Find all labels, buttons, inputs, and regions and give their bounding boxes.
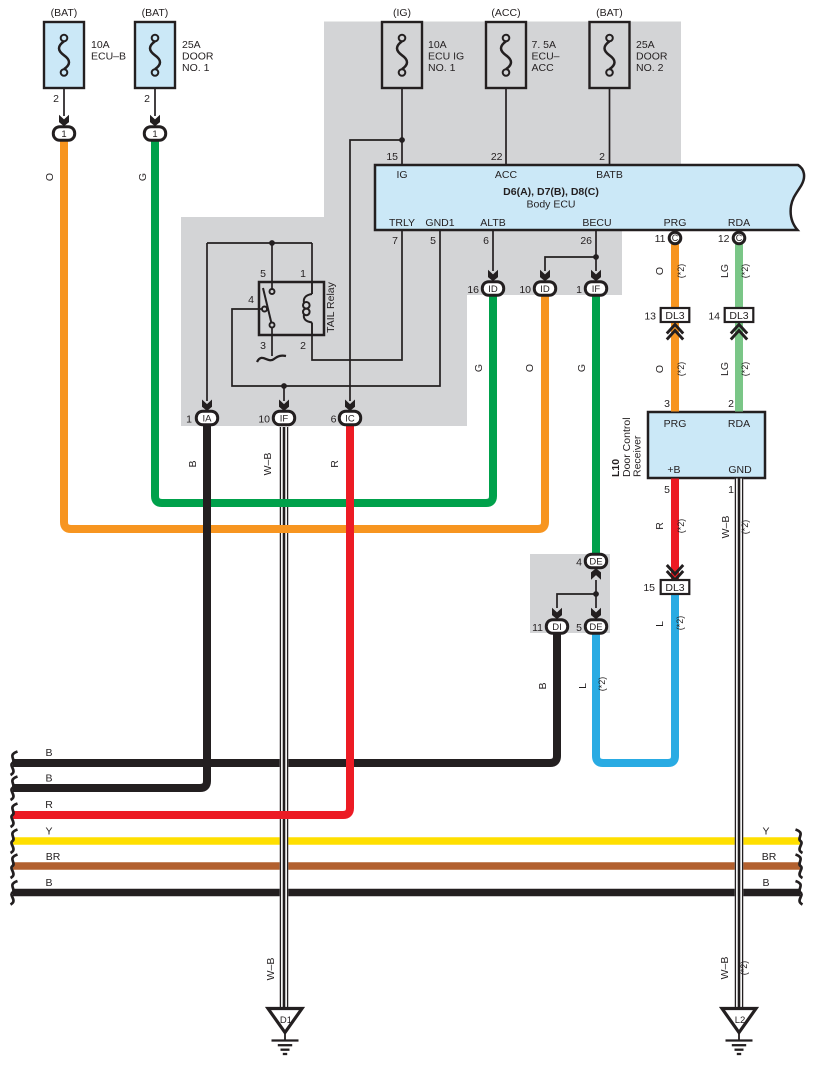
wire B connector IA to left bus [13, 426, 207, 789]
svg-text:B: B [762, 877, 769, 889]
svg-text:R: R [654, 522, 666, 530]
svg-text:BR: BR [46, 851, 61, 863]
svg-text:L2: L2 [735, 1015, 746, 1026]
svg-text:2: 2 [53, 93, 59, 105]
svg-text:7: 7 [392, 235, 398, 247]
svg-text:PRG: PRG [664, 418, 687, 430]
svg-text:Receiver: Receiver [632, 435, 644, 477]
svg-text:NO. 2: NO. 2 [636, 62, 664, 74]
shaded harness area (door junction) [530, 554, 610, 633]
wire W-B from receiver GND to ground L2 [735, 479, 742, 1009]
svg-text:25A: 25A [182, 39, 201, 51]
svg-text:4: 4 [576, 557, 582, 569]
connector IF [273, 411, 294, 425]
chevron into DL3 14 [731, 325, 747, 340]
svg-text:R: R [329, 460, 341, 468]
fuse 7.5A ECU-ACC [486, 22, 526, 88]
svg-text:ID: ID [540, 284, 550, 295]
wire relay pin 3 stub [271, 328, 273, 356]
junction on BECU wire [593, 254, 599, 260]
svg-text:DI: DI [552, 622, 562, 633]
svg-text:B: B [187, 460, 199, 467]
svg-text:O: O [524, 364, 536, 372]
connector C at ECU PRG [669, 232, 681, 244]
svg-text:B: B [537, 682, 549, 689]
svg-text:1: 1 [300, 268, 306, 280]
svg-text:LG: LG [719, 264, 731, 278]
junction above relay pin 5 [269, 240, 275, 246]
wire ECU ALTB to connector ID [492, 230, 494, 271]
wire to relay pin 1 [311, 243, 313, 282]
arrow into connector DE 5 [591, 608, 601, 620]
svg-text:B: B [45, 747, 52, 759]
svg-text:+B: +B [667, 464, 680, 476]
connector ID 16 [482, 282, 503, 296]
fuse 10A ECU IG NO.1 [382, 22, 422, 88]
connector ID 10 [534, 282, 555, 296]
wire relay pin 2 to ECU TRLY [312, 230, 402, 360]
wire to connector IA [206, 243, 208, 401]
chevron into DL3 13 [667, 325, 683, 340]
wire R connector IC to left bus [13, 426, 350, 816]
svg-text:7. 5A: 7. 5A [532, 39, 557, 51]
wire fuse DOOR-NO.1 to connector 1 [154, 88, 156, 116]
svg-text:1: 1 [61, 129, 66, 140]
svg-text:DL3: DL3 [665, 310, 684, 322]
svg-text:15: 15 [386, 151, 398, 163]
junction DE split [593, 591, 599, 597]
connector 1 below fuse ECU-B [53, 127, 74, 141]
wire node DE junction [595, 580, 597, 608]
svg-text:B: B [45, 877, 52, 889]
svg-text:(ACC): (ACC) [491, 7, 520, 19]
arrow into connector ID 16 [488, 270, 498, 282]
connector DE 5 [585, 620, 606, 634]
svg-text:GND: GND [728, 464, 752, 476]
fuse 25A DOOR NO.1 [135, 22, 175, 88]
svg-text:ACC: ACC [495, 169, 518, 181]
wire to relay pin 5 [271, 243, 273, 289]
ground D1 [268, 1009, 302, 1055]
ECU box Body ECU D6(A) D7(B) D8(C) [375, 165, 804, 230]
junction block DL3 13 [661, 308, 690, 322]
bus break left Y [11, 830, 18, 854]
svg-text:1: 1 [576, 284, 582, 296]
wire L blue loop DE to DL3 [596, 594, 675, 763]
svg-text:(*2): (*2) [740, 520, 750, 535]
svg-text:22: 22 [491, 151, 503, 163]
junction block DL3 15 [661, 580, 690, 594]
svg-text:ALTB: ALTB [480, 217, 505, 229]
wire IG branch to connector IC [350, 140, 402, 401]
svg-text:BATB: BATB [596, 169, 623, 181]
svg-text:GND1: GND1 [425, 217, 454, 229]
svg-text:DOOR: DOOR [182, 51, 214, 63]
svg-text:5: 5 [260, 268, 266, 280]
svg-text:Y: Y [45, 826, 52, 838]
bus wire BR brown [13, 862, 800, 870]
svg-text:BECU: BECU [582, 217, 611, 229]
svg-text:DL3: DL3 [729, 310, 748, 322]
wire LG ECU RDA to receiver RDA [735, 243, 743, 412]
svg-text:IG: IG [396, 169, 407, 181]
arrow into connector IF [279, 400, 289, 412]
arrow into connector ID 10 [540, 270, 550, 282]
svg-text:(*2): (*2) [740, 264, 750, 279]
wire to connector IF [283, 386, 285, 401]
svg-text:4: 4 [248, 294, 254, 306]
wire R receiver +B to DL3 [671, 479, 679, 580]
junction on GND1 wire [281, 383, 287, 389]
svg-text:26: 26 [580, 235, 592, 247]
svg-text:10A: 10A [91, 39, 110, 51]
relay contact pin 3 terminal [270, 323, 275, 328]
svg-text:11: 11 [532, 622, 543, 634]
svg-text:C: C [736, 233, 743, 243]
wire fuse ECU-IG-NO.1 to ECU pin 15 [401, 88, 403, 165]
arrow into connector 1 (ECU-B) [59, 115, 69, 127]
connector C at ECU RDA [733, 232, 745, 244]
svg-text:O: O [654, 365, 666, 373]
wire O fuse ECU-B to connector ID [64, 141, 545, 529]
junction on IG wire [399, 137, 405, 143]
wire fuse ECU-ACC to ECU pin 22 [505, 88, 507, 165]
bus break left BR [11, 855, 18, 879]
svg-text:NO. 1: NO. 1 [428, 62, 456, 74]
svg-text:14: 14 [708, 311, 720, 323]
wire BECU branch to connector ID [545, 257, 596, 271]
chevron into DL3 15 [667, 565, 683, 580]
svg-text:(IG): (IG) [393, 7, 411, 19]
arrow into connector 1 (DOOR-NO.1) [150, 115, 160, 127]
svg-text:(*2): (*2) [676, 519, 686, 534]
arrow into connector DE 4 [591, 568, 601, 580]
svg-text:NO. 1: NO. 1 [182, 62, 210, 74]
svg-text:RDA: RDA [728, 217, 750, 229]
bus break right B3 [796, 881, 803, 905]
connector IF 1 [585, 282, 606, 296]
svg-text:2: 2 [144, 93, 150, 105]
svg-text:D1: D1 [280, 1015, 292, 1026]
svg-text:ECU IG: ECU IG [428, 51, 464, 63]
wire fuse DOOR-NO.2 to ECU pin 2 [609, 88, 611, 165]
wire W-B from connector IF to ground D1 [280, 427, 287, 1008]
svg-text:TAIL Relay: TAIL Relay [325, 281, 337, 333]
ground L2 [722, 1009, 756, 1055]
connector IA [196, 411, 217, 425]
connector DE 4 [585, 554, 606, 568]
svg-text:(BAT): (BAT) [142, 7, 169, 19]
wire G connector IF to connector DE [592, 296, 600, 555]
svg-text:(*2): (*2) [676, 362, 686, 377]
svg-text:O: O [654, 267, 666, 275]
svg-text:1: 1 [152, 129, 157, 140]
shaded harness area (main) [181, 22, 681, 427]
svg-text:10A: 10A [428, 39, 447, 51]
relay coil [303, 282, 312, 335]
wire B from connector DI to left bus [13, 634, 557, 764]
svg-text:10: 10 [519, 284, 531, 296]
bus wire B black lower [13, 889, 800, 897]
svg-text:1: 1 [728, 484, 734, 496]
wire relay feed horizontal [207, 242, 312, 244]
connector IC [339, 411, 360, 425]
svg-text:W–B: W–B [719, 957, 731, 980]
svg-text:PRG: PRG [664, 217, 687, 229]
arrow into connector IF 1 [591, 270, 601, 282]
bus wire Y yellow [13, 837, 800, 845]
svg-text:IA: IA [203, 413, 213, 424]
bus break left B2 [11, 777, 18, 801]
svg-text:DOOR: DOOR [636, 51, 668, 63]
wire G fuse DOOR-NO.1 to connector ID [155, 141, 493, 503]
relay contact pin 4 terminal [262, 307, 267, 312]
arrow into connector IC [345, 400, 355, 412]
svg-text:B: B [45, 773, 52, 785]
bus break left B3 [11, 881, 18, 905]
svg-text:2: 2 [728, 398, 734, 410]
bus break left R [11, 804, 18, 828]
svg-text:C: C [672, 233, 679, 243]
svg-text:Y: Y [762, 826, 769, 838]
svg-text:10: 10 [258, 414, 270, 426]
svg-text:(*2): (*2) [597, 677, 607, 692]
svg-text:5: 5 [664, 484, 670, 496]
svg-text:Body ECU: Body ECU [526, 199, 575, 211]
svg-text:2: 2 [300, 340, 306, 352]
svg-text:25A: 25A [636, 39, 655, 51]
svg-text:IF: IF [280, 413, 289, 424]
break squiggle below relay pin 3 [257, 356, 286, 362]
svg-text:11: 11 [655, 233, 666, 245]
wire O ECU PRG to receiver PRG [671, 243, 679, 412]
wire ECU GND1 to relay pin 4 [232, 230, 440, 386]
fuse 25A DOOR NO.2 [590, 22, 630, 88]
svg-text:ECU–: ECU– [532, 51, 560, 63]
svg-text:3: 3 [664, 398, 670, 410]
svg-text:RDA: RDA [728, 418, 750, 430]
svg-text:13: 13 [644, 311, 656, 323]
svg-text:2: 2 [599, 151, 605, 163]
svg-text:(*2): (*2) [675, 616, 685, 631]
svg-text:16: 16 [467, 284, 479, 296]
svg-text:L: L [654, 621, 666, 627]
relay contact pin 5 terminal [270, 289, 275, 294]
svg-text:3: 3 [260, 340, 266, 352]
receiver box L10 Door Control Receiver [648, 412, 765, 478]
svg-text:IC: IC [345, 413, 355, 424]
wire fuse ECU-B to connector 1 [63, 88, 65, 116]
connector 1 below fuse DOOR-NO.1 [144, 127, 165, 141]
bus break right BR [796, 855, 803, 879]
svg-text:ECU–B: ECU–B [91, 51, 126, 63]
svg-text:(BAT): (BAT) [596, 7, 623, 19]
svg-text:1: 1 [186, 414, 192, 426]
arrow into connector IA [202, 400, 212, 412]
svg-text:5: 5 [576, 622, 582, 634]
svg-text:L: L [577, 683, 589, 689]
wire ECU BECU down [595, 230, 597, 271]
svg-text:BR: BR [762, 851, 777, 863]
junction block DL3 14 [725, 308, 754, 322]
svg-text:G: G [137, 173, 149, 181]
svg-text:IF: IF [592, 284, 601, 295]
svg-text:TRLY: TRLY [389, 217, 415, 229]
svg-text:15: 15 [643, 582, 655, 594]
svg-text:O: O [44, 173, 56, 181]
svg-text:W–B: W–B [720, 516, 732, 539]
svg-text:ID: ID [488, 284, 498, 295]
svg-text:G: G [576, 364, 588, 372]
svg-text:DE: DE [589, 556, 602, 567]
relay contact arm [263, 288, 271, 323]
svg-text:(BAT): (BAT) [51, 7, 78, 19]
svg-text:ACC: ACC [532, 62, 555, 74]
svg-text:W–B: W–B [262, 453, 274, 476]
connector DI 11 [546, 620, 567, 634]
svg-text:R: R [45, 799, 53, 811]
svg-text:DL3: DL3 [665, 582, 684, 594]
svg-text:D6(A), D7(B), D8(C): D6(A), D7(B), D8(C) [503, 186, 599, 198]
svg-text:G: G [473, 364, 485, 372]
fuse 10A ECU-B [44, 22, 84, 88]
svg-text:6: 6 [331, 414, 337, 426]
svg-text:(*2): (*2) [676, 264, 686, 279]
bus break right Y [796, 830, 803, 854]
svg-text:12: 12 [718, 233, 730, 245]
wire branch to connector DI [557, 594, 596, 608]
svg-text:(*2): (*2) [740, 362, 750, 377]
svg-text:DE: DE [589, 622, 602, 633]
bus break left B1 [11, 752, 18, 776]
svg-text:W–B: W–B [265, 958, 277, 981]
svg-text:6: 6 [483, 235, 489, 247]
svg-text:5: 5 [430, 235, 436, 247]
svg-text:(*2): (*2) [739, 961, 749, 976]
svg-text:LG: LG [719, 362, 731, 376]
relay TAIL Relay box [259, 282, 324, 335]
arrow into connector DI 11 [552, 608, 562, 620]
